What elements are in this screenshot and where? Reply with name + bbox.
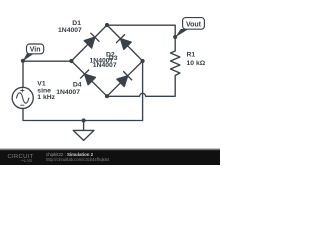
svg-text:-•LAB: -•LAB <box>21 158 33 163</box>
node Vin <box>21 59 25 63</box>
wire top: bridge N corner to Vout rail and R1 top <box>107 25 175 51</box>
diode D4 <box>71 61 107 96</box>
svg-text:1N4007: 1N4007 <box>56 89 80 96</box>
node ground junction <box>82 118 86 122</box>
svg-text:D3: D3 <box>109 55 118 62</box>
flag Vin <box>23 44 44 61</box>
svg-text:http://circuitlab.com/c3cb44fh: http://circuitlab.com/c3cb44fhqk64 <box>46 157 110 162</box>
svg-text:10 kΩ: 10 kΩ <box>187 60 206 67</box>
footer logo CIRCUIT LAB <box>8 154 34 163</box>
diode D1 <box>71 25 107 61</box>
node at bridge S corner <box>105 94 109 98</box>
node Vout <box>173 35 177 39</box>
svg-text:1 kHz: 1 kHz <box>37 94 55 101</box>
voltage source V1 <box>12 87 33 108</box>
svg-text:1N4007: 1N4007 <box>58 27 82 34</box>
svg-text:D4: D4 <box>73 82 82 89</box>
flag Vout <box>175 18 204 38</box>
svg-text:Vin: Vin <box>30 47 41 54</box>
footer text line 1: chipkit22 : Simulation 2 <box>46 152 110 162</box>
svg-text:1N4007: 1N4007 <box>93 62 117 69</box>
node at bridge N corner <box>105 23 109 27</box>
diode D2 <box>107 25 143 61</box>
ground <box>73 121 94 141</box>
wire bottom: V1 bottom along bottom rail up to bridge E corner <box>23 61 143 121</box>
diode D3 <box>107 61 143 96</box>
footer bar <box>0 151 220 166</box>
resistor R1 <box>171 51 180 76</box>
wire left: bridge W corner to Vin corner down to V1 top <box>23 61 71 87</box>
wire R1 bottom to bridge S corner with hop over vertical wire <box>107 76 175 97</box>
node at bridge W corner <box>69 59 73 63</box>
node at bridge E corner <box>141 59 145 63</box>
svg-text:R1: R1 <box>187 51 196 58</box>
svg-text:Vout: Vout <box>186 21 202 28</box>
